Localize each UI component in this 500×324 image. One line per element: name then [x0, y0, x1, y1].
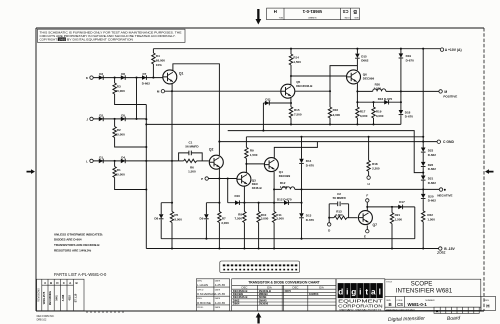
resistor R12: [282, 187, 295, 190]
wire: Q3 emitter: [243, 186, 245, 203]
wire: D11 drop to bus B: [262, 103, 264, 131]
resistor R20: [357, 90, 439, 92]
diode D6: [121, 75, 125, 80]
svg-text:15,000: 15,000: [116, 173, 126, 177]
resistor R5: [170, 212, 173, 223]
terminal M POSITIVE: [439, 90, 442, 93]
svg-text:M: M: [157, 90, 160, 94]
diode D16: [384, 100, 388, 105]
wire: L input row to C1/R6: [93, 160, 178, 162]
svg-text:3,000: 3,000: [376, 114, 384, 118]
resistor R21: [391, 207, 393, 213]
svg-text:R19: R19: [376, 110, 382, 114]
svg-text:TITLE: TITLE: [386, 281, 392, 283]
svg-text:D-662: D-662: [428, 181, 437, 185]
svg-text:Board: Board: [447, 315, 461, 322]
fold arrow top (down arrow): [256, 9, 262, 25]
svg-text:C GND: C GND: [443, 140, 454, 144]
svg-text:A-998: A-998: [62, 294, 65, 301]
svg-text:D-662: D-662: [142, 82, 151, 86]
svg-text:3,000: 3,000: [360, 114, 368, 118]
resistor R9: [245, 137, 247, 148]
svg-text:D: D: [328, 229, 331, 233]
svg-text:68,000: 68,000: [156, 59, 166, 63]
svg-text:MAYNARD, MASSACHUSETTS: MAYNARD, MASSACHUSETTS: [339, 309, 382, 312]
svg-text:1965: 1965: [58, 37, 65, 41]
names/date table: [196, 279, 229, 311]
svg-text:R9: R9: [250, 148, 254, 152]
svg-text:NUMBER: NUMBER: [425, 300, 435, 302]
svg-text:R17: R17: [360, 110, 366, 114]
svg-text:D10: D10: [234, 194, 240, 198]
svg-text:D-670: D-670: [406, 59, 415, 63]
svg-text:D1: D1: [99, 156, 103, 160]
svg-text:C: C: [63, 281, 66, 285]
svg-text:1,500: 1,500: [427, 218, 435, 222]
svg-text:INTENSIFIER W681: INTENSIFIER W681: [396, 288, 453, 295]
svg-text:CS: CS: [342, 9, 348, 14]
svg-text:H: H: [368, 182, 370, 186]
connector strip: [220, 261, 300, 273]
node: top rail junctions: [290, 48, 292, 50]
terminal E: [366, 230, 369, 233]
svg-text:R1: R1: [117, 168, 121, 172]
svg-text:R22: R22: [427, 213, 433, 217]
terminal NEGATIVE: [439, 188, 442, 191]
fold arrow right edge: [485, 169, 494, 174]
fold arrow left edge: [27, 169, 36, 174]
wire: J input row: [93, 118, 146, 120]
transistor Q2: [209, 155, 223, 169]
transistor Q1: [163, 70, 177, 84]
capacitor C2: [329, 204, 348, 218]
svg-text:F: F: [366, 193, 368, 197]
notice box top-left: [38, 29, 186, 42]
svg-text:D-670: D-670: [405, 115, 414, 119]
resistor R7: [218, 203, 220, 212]
svg-text:SIZE: SIZE: [354, 16, 359, 18]
svg-text:3: 3: [44, 281, 46, 285]
svg-text:DEC: DEC: [242, 285, 248, 289]
svg-text:REV.: REV.: [278, 16, 283, 18]
wire: Q7 emitter: [366, 225, 368, 229]
wire: Q5 emitter: [290, 98, 292, 107]
resistor R10: [258, 203, 260, 212]
svg-text:1,500: 1,500: [293, 60, 301, 64]
diode D23: [421, 148, 426, 153]
top strip: rotated title-block row: [267, 8, 360, 20]
svg-text:DATE: DATE: [215, 306, 221, 309]
svg-text:REVISIONS: REVISIONS: [38, 288, 41, 302]
svg-text:D6: D6: [121, 72, 125, 76]
wire: Q4 collector jog to C-line: [274, 142, 317, 158]
wire: M row to Q5 base: [165, 90, 281, 92]
title block: [385, 279, 481, 310]
svg-text:2061: 2061: [436, 250, 446, 255]
svg-text:W681-2575: W681-2575: [43, 291, 46, 304]
diode D14: [301, 137, 303, 159]
wire: NEGATIVE tap: [423, 188, 439, 190]
diode D17: [398, 205, 402, 210]
resistor R19: [373, 102, 375, 107]
svg-text:B: B: [353, 8, 357, 14]
svg-text:REV.: REV.: [485, 300, 490, 302]
wire: K-J tie line: [136, 78, 138, 119]
svg-text:3,300: 3,300: [335, 213, 343, 217]
svg-text:A: A: [436, 308, 439, 313]
svg-text:PROD.: PROD.: [197, 307, 204, 309]
svg-text:D7: D7: [142, 72, 146, 76]
svg-text:D8: D8: [154, 216, 158, 220]
wire: K input row: [93, 77, 163, 79]
svg-text:REV.WIRING: REV.WIRING: [49, 291, 52, 305]
svg-text:COPYRIGHT: COPYRIGHT: [40, 37, 58, 41]
svg-text:56 MMFD: 56 MMFD: [333, 196, 347, 200]
svg-text:R15: R15: [294, 108, 300, 112]
revision table: [37, 279, 84, 311]
svg-text:D5: D5: [121, 114, 125, 118]
diode D21: [421, 176, 426, 181]
svg-text:ET 1.10: ET 1.10: [75, 293, 78, 302]
wire: R12 NEGATIVE row: [274, 188, 423, 190]
svg-text:d: d: [338, 288, 343, 297]
resistor R6: [179, 160, 184, 162]
svg-text:D17: D17: [399, 200, 405, 204]
svg-text:R3: R3: [117, 84, 121, 88]
svg-text:1,500: 1,500: [395, 218, 403, 222]
svg-text:D-662: D-662: [428, 167, 437, 171]
svg-text:R16: R16: [333, 108, 339, 112]
diode D9: [205, 203, 207, 215]
svg-text:CODE: CODE: [344, 16, 350, 18]
svg-text:15,000: 15,000: [116, 133, 126, 137]
svg-text:3,000: 3,000: [221, 221, 229, 225]
capacitor C1: [179, 153, 203, 161]
svg-text:A +10V (A): A +10V (A): [445, 48, 462, 52]
transistor Q4: [264, 158, 278, 172]
svg-text:D4: D4: [121, 156, 125, 160]
svg-text:R21: R21: [395, 213, 401, 217]
svg-text:R14: R14: [293, 55, 299, 59]
svg-text:7,500: 7,500: [294, 113, 302, 117]
svg-text:R.BOONE: R.BOONE: [197, 301, 211, 305]
wire: Q1 collector to Q2 collector: [173, 64, 220, 155]
wire: Q1 emitter: [171, 83, 173, 91]
svg-text:SCOPE: SCOPE: [411, 281, 433, 288]
wire: Q6 emitter: [356, 83, 358, 102]
svg-text:H: H: [486, 303, 490, 308]
svg-text:D664: D664: [233, 302, 240, 306]
wire: left vertical bus: [145, 105, 147, 249]
terminal P: [205, 177, 208, 180]
border right edge (dashed): [483, 28, 485, 311]
svg-text:D3: D3: [99, 72, 103, 76]
svg-text:B -15V: B -15V: [444, 247, 455, 251]
svg-text:K: K: [86, 76, 89, 80]
terminal M: [161, 90, 164, 93]
svg-text:DRB 102: DRB 102: [37, 318, 47, 321]
svg-text:D-662: D-662: [428, 153, 437, 157]
diode D20: [421, 194, 426, 199]
wire: upper bottom rail (diode returns): [161, 238, 415, 240]
svg-text:DEC3646-B: DEC3646-B: [296, 84, 313, 88]
svg-text:t: t: [365, 288, 368, 297]
transistor Q7: [358, 211, 372, 225]
svg-text:4-25-65: 4-25-65: [215, 283, 226, 287]
diode D1: [99, 159, 103, 164]
terminal B -15V: [439, 247, 442, 250]
resistor R1: [114, 161, 116, 167]
svg-text:CORPORATION: CORPORATION: [338, 304, 383, 309]
svg-text:R5: R5: [174, 213, 178, 217]
svg-text:1N3653: 1N3653: [309, 292, 319, 296]
wire: Q4 emitter / vertical through R11: [273, 172, 275, 212]
terminal C GND: [437, 140, 440, 143]
wire: mid vertical bus (M to -15V rail): [171, 91, 173, 211]
transistor Q5: [281, 84, 295, 98]
svg-text:UNLESS OTHERWISE INDICATED:: UNLESS OTHERWISE INDICATED:: [54, 233, 103, 237]
wire: D16 row: [357, 101, 401, 103]
svg-text:TRANSISTORS ARE DEC3639-B: TRANSISTORS ARE DEC3639-B: [54, 243, 100, 247]
svg-text:E: E: [364, 235, 366, 239]
svg-text:D16 D-670: D16 D-670: [378, 97, 393, 101]
svg-text:POSITIVE: POSITIVE: [443, 95, 457, 99]
wire: Q5 collector to Q6 base: [291, 76, 346, 85]
svg-text:ENG.: ENG.: [197, 298, 203, 300]
svg-text:R2: R2: [117, 128, 121, 132]
wire: rail B (D11 bus): [228, 131, 424, 173]
svg-text:3,000: 3,000: [333, 113, 341, 117]
svg-text:Q1: Q1: [179, 72, 184, 76]
svg-text:3,000: 3,000: [174, 218, 182, 222]
svg-text:3,000: 3,000: [276, 217, 284, 221]
svg-text:D11: D11: [265, 97, 271, 101]
resistor R8: [243, 203, 245, 212]
resistor R11: [272, 212, 275, 223]
resistor R3: [114, 78, 116, 83]
svg-text:1N3606: 1N3606: [259, 302, 269, 306]
svg-text:D12 D-670: D12 D-670: [277, 197, 292, 201]
resistor R2: [114, 119, 116, 127]
svg-text:D-662: D-662: [428, 199, 437, 203]
terminal K: [90, 76, 93, 79]
svg-text:10%: 10%: [156, 63, 162, 67]
wire: diode chain vertical (+10V to -15V): [422, 49, 424, 148]
diode D19: [400, 49, 402, 54]
svg-text:D662: D662: [361, 59, 369, 63]
transistor Q6: [347, 70, 361, 84]
svg-text:NEGATIVE: NEGATIVE: [437, 193, 452, 197]
svg-text:RESISTORS ARE 1/4W,5%: RESISTORS ARE 1/4W,5%: [54, 249, 92, 253]
diode D15: [356, 49, 358, 54]
svg-text:1,500: 1,500: [250, 153, 258, 157]
resistor R16: [329, 91, 331, 107]
svg-text:B: B: [389, 302, 392, 307]
svg-text:Digital Intensifier: Digital Intensifier: [388, 316, 425, 323]
wire: Q7 collector node: [366, 202, 368, 210]
svg-text:J: J: [86, 117, 88, 121]
svg-text:4318: 4318: [68, 295, 71, 301]
diode D22: [421, 162, 426, 167]
svg-text:CHK'D: CHK'D: [197, 289, 204, 291]
svg-text:W681-0-1: W681-0-1: [408, 302, 428, 307]
transistor Q3: [237, 172, 251, 186]
wire: D8/D9 stub row: [161, 202, 219, 204]
wire: Q6 collector jog to R16: [330, 66, 357, 92]
diode D13: [301, 203, 303, 214]
svg-text:W681-0-1: W681-0-1: [302, 9, 322, 14]
svg-text:PARTS LIST A-PL-W681-0-0: PARTS LIST A-PL-W681-0-0: [54, 272, 107, 277]
resistor R4: [152, 49, 154, 53]
svg-text:3,000: 3,000: [261, 217, 269, 221]
terminal D: [328, 218, 330, 223]
diode D8: [160, 203, 162, 215]
svg-text:D670: D670: [285, 289, 292, 293]
svg-text:B: B: [76, 281, 79, 285]
diode D5: [121, 117, 125, 122]
svg-text:2,200: 2,200: [372, 166, 380, 170]
svg-text:DEC: DEC: [293, 285, 299, 289]
terminal A +10V: [440, 48, 443, 51]
rev cell: [481, 296, 496, 310]
wire: rail C (R9/D14/R18 tops): [246, 136, 423, 138]
svg-text:4-20-65: 4-20-65: [215, 301, 226, 305]
resistor R15: [289, 107, 292, 118]
diode D12: [284, 200, 288, 205]
svg-text:CS: CS: [397, 302, 403, 307]
svg-text:l: l: [379, 288, 381, 297]
svg-text:DIODES ARE D-664: DIODES ARE D-664: [54, 237, 82, 241]
wire: Q5 collector right segment: [295, 90, 330, 92]
svg-text:PRINTED CIRCUIT REV.: PRINTED CIRCUIT REV.: [386, 308, 415, 312]
wire: top +10V rail: [153, 48, 440, 50]
svg-text:DATE: DATE: [215, 297, 221, 300]
svg-text:DEC999: DEC999: [279, 174, 291, 178]
terminal H: [367, 176, 370, 179]
svg-text:BY DIGITAL EQUIPMENT CORPORATI: BY DIGITAL EQUIPMENT CORPORATION: [67, 37, 133, 41]
digital logo block: [336, 279, 385, 311]
svg-text:D2: D2: [99, 114, 103, 118]
svg-text:TRANSISTOR & DIODE CONVERSION: TRANSISTOR & DIODE CONVERSION CHART: [248, 281, 320, 285]
svg-text:D: D: [56, 281, 59, 285]
svg-text:P: P: [201, 177, 203, 181]
wire: -15V bottom rail: [146, 248, 438, 250]
transistor & diode conversion chart: [232, 279, 336, 311]
svg-text:1,500: 1,500: [374, 86, 382, 90]
diode D2: [99, 117, 103, 122]
diode D3: [99, 75, 103, 80]
svg-text:R.SILVERMAN: R.SILVERMAN: [197, 292, 215, 296]
svg-text:R4: R4: [156, 54, 160, 58]
svg-text:D-670: D-670: [306, 164, 315, 168]
resistor R17: [356, 102, 358, 107]
svg-text:Q7: Q7: [373, 223, 378, 227]
svg-text:a: a: [371, 288, 376, 297]
diode D10: [235, 200, 239, 205]
svg-text:4-15-65: 4-15-65: [215, 292, 226, 296]
wire: rail A (R15/R16/R17/R19 bottoms): [146, 123, 401, 125]
svg-text:DEC999: DEC999: [363, 77, 375, 81]
svg-text:15,000: 15,000: [116, 89, 126, 93]
resistor R13: [329, 217, 334, 219]
svg-text:A: A: [69, 281, 72, 285]
svg-text:L.HAHN: L.HAHN: [197, 283, 208, 287]
wire: Q3 collector to Q4 base: [246, 163, 264, 165]
svg-text:H: H: [274, 9, 277, 14]
svg-text:D-670: D-670: [306, 218, 315, 222]
wire: D10/D12 row: [228, 179, 302, 203]
svg-text:R18: R18: [372, 162, 378, 166]
wire: C GND line: [219, 141, 437, 143]
svg-text:Q2: Q2: [209, 147, 214, 151]
fold arrow bottom (up arrow): [256, 313, 262, 324]
svg-text:7,500: 7,500: [234, 216, 242, 220]
diode D11: [263, 102, 291, 104]
svg-text:D9: D9: [200, 216, 204, 220]
svg-text:EIA: EIA: [319, 285, 324, 289]
svg-text:L: L: [86, 159, 88, 163]
svg-text:B: B: [50, 281, 53, 285]
svg-text:1,500: 1,500: [188, 170, 196, 174]
resistor R14: [290, 49, 292, 54]
svg-text:56 MMFD: 56 MMFD: [185, 144, 199, 148]
edge tick marks: [87, 311, 123, 313]
svg-text:1,500: 1,500: [280, 185, 288, 189]
svg-text:g: g: [351, 288, 356, 297]
svg-text:DATE: DATE: [215, 288, 221, 291]
resistor R18: [368, 137, 370, 161]
diode D4: [121, 159, 125, 164]
wire: Q2 emitter: [218, 167, 220, 203]
svg-text:i: i: [359, 288, 361, 297]
wire: P row to Q3 base: [208, 178, 237, 180]
svg-text:EIA: EIA: [267, 285, 272, 289]
diode D18: [399, 110, 404, 115]
terminal L: [90, 159, 93, 162]
border frame of drawing: [36, 28, 484, 311]
diode D7: [142, 75, 146, 80]
svg-text:NUMBER: NUMBER: [308, 16, 317, 18]
svg-text:5441: 5441: [56, 295, 59, 301]
wire: D17 row: [367, 207, 415, 239]
terminal J: [90, 117, 93, 120]
svg-text:M: M: [444, 90, 447, 94]
svg-text:i: i: [346, 288, 348, 297]
resistor R22: [422, 211, 425, 222]
svg-text:3646-B: 3646-B: [252, 186, 263, 190]
